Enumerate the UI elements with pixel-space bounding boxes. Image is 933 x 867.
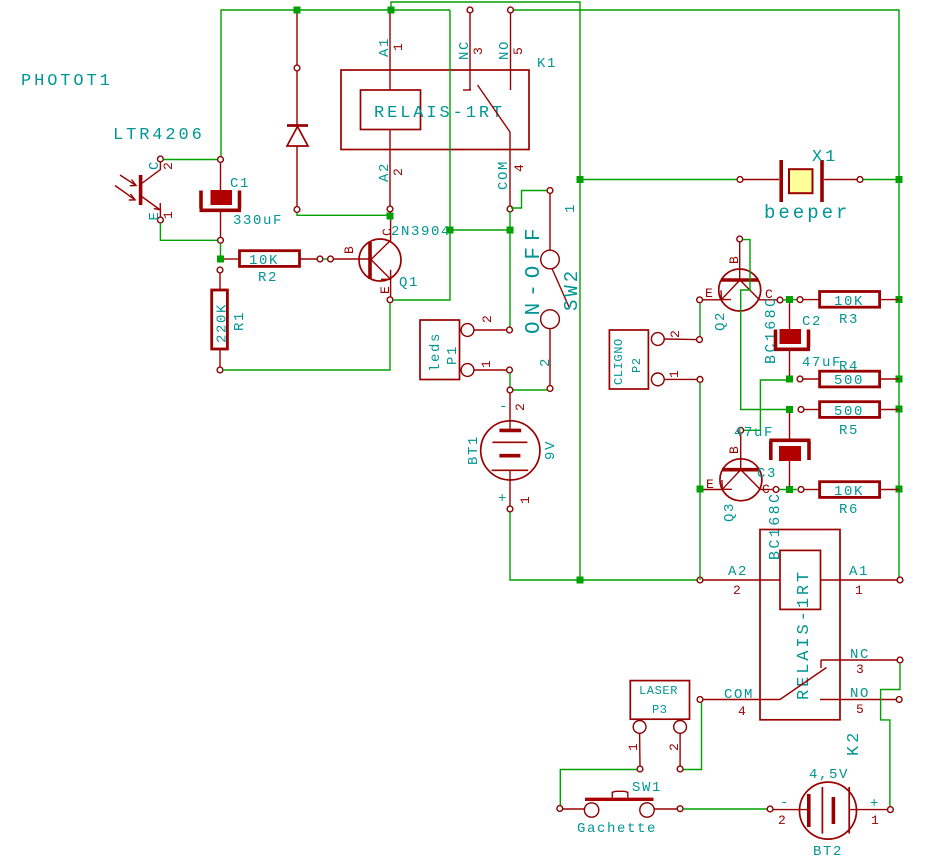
value 220K (215, 303, 231, 343)
label E (Q3) (706, 477, 714, 492)
label plus (BT2) (870, 796, 880, 812)
node SW1 left circle (557, 806, 563, 812)
svg-text:2N3904: 2N3904 (391, 224, 451, 240)
junction C2 top (786, 296, 793, 303)
wire R2 to Q1 base (323, 258, 327, 260)
node C1 bottom circle (218, 237, 224, 243)
svg-text:P2: P2 (630, 357, 644, 373)
svg-text:1: 1 (855, 583, 863, 598)
pin number 2 (P2) (668, 330, 683, 338)
resistor R2 10K (224, 251, 323, 267)
label 2N3904 (391, 224, 451, 240)
svg-text:E: E (378, 286, 393, 294)
pin number 1 (BT1) (518, 496, 533, 504)
pin name C (147, 160, 163, 170)
svg-text:1: 1 (563, 203, 579, 213)
label C (Q3) (762, 482, 770, 497)
label E (378, 286, 393, 294)
svg-text:SW1: SW1 (632, 780, 662, 796)
junction node R1/R2 (217, 256, 224, 263)
svg-text:BT1: BT1 (466, 435, 482, 465)
junction x580 beeper row (577, 176, 584, 183)
svg-text:C1: C1 (230, 176, 250, 192)
svg-text:NC: NC (850, 647, 870, 663)
svg-text:A2: A2 (728, 564, 748, 580)
junction x580 bottom rail (577, 577, 584, 584)
label B (Q2) (727, 256, 742, 264)
svg-text:4: 4 (512, 164, 527, 172)
pin number 1 (161, 211, 176, 219)
node R6 left circle (798, 487, 804, 493)
name CLIGNO (612, 338, 626, 385)
svg-text:E: E (706, 477, 714, 492)
svg-text:47uF: 47uF (734, 425, 774, 441)
svg-text:2: 2 (480, 315, 495, 323)
phototransistor LTR4206 (115, 156, 163, 223)
name R5 (839, 423, 859, 439)
name R6 (839, 502, 859, 518)
junction x510 COM row (507, 227, 514, 234)
junction x899 beeper row (896, 176, 903, 183)
junction x899 R3 row (896, 296, 903, 303)
svg-text:Q1: Q1 (399, 275, 419, 291)
svg-text:10K: 10K (834, 294, 864, 310)
resistor R5 500 (804, 402, 899, 418)
wire P3 pin1 to SW1 left (560, 770, 637, 806)
svg-text:R6: R6 (839, 502, 859, 518)
svg-text:K2: K2 (845, 730, 864, 756)
value 500 (R5) (834, 404, 864, 420)
pin number 2 (SW2) (538, 357, 554, 367)
svg-text:2: 2 (538, 357, 554, 367)
pin number 1 (391, 43, 406, 51)
label Q2 (713, 311, 729, 331)
battery BT2 4,5V (773, 782, 893, 839)
svg-text:BC168C: BC168C (763, 296, 780, 364)
svg-text:NO: NO (850, 686, 870, 702)
name P1 (445, 345, 461, 365)
label 47uF (C2) (802, 355, 842, 371)
svg-text:SW2: SW2 (561, 268, 583, 311)
label RELAIS-1RT (K1) (374, 104, 505, 123)
svg-text:beeper: beeper (764, 202, 850, 224)
wire LTR emitter down-right (160, 223, 217, 240)
label RELAIS-1RT (K2) (795, 569, 814, 700)
svg-text:1: 1 (161, 211, 176, 219)
beeper X1 (737, 160, 863, 202)
svg-text:2: 2 (161, 162, 176, 170)
node R4 left circle (797, 376, 803, 382)
capacitor C3 (inverted) (769, 413, 810, 487)
name R1 (232, 311, 248, 331)
svg-text:R4: R4 (839, 359, 859, 375)
wire beeper left (583, 179, 737, 181)
junction C2 bottom (786, 376, 793, 383)
name leds (428, 332, 444, 372)
resistor R1 220K (212, 273, 228, 373)
pin number 2 (P3) (667, 743, 682, 751)
label C (Q2) (765, 287, 773, 302)
label plus (498, 491, 508, 507)
wire Q3 collector to R6 junction (779, 489, 797, 491)
junction x899 R4 row (896, 376, 903, 383)
relay K1 coil RELAIS-1RT (341, 14, 529, 212)
resistor R3 10K (803, 292, 899, 308)
svg-text:B: B (727, 446, 742, 454)
label B (342, 246, 357, 254)
wire C1 bottom to junction (220, 243, 222, 256)
wire C2 bottom to Q3 base (743, 380, 787, 430)
svg-text:1: 1 (626, 743, 641, 751)
pin name NO (497, 40, 513, 60)
svg-text:B: B (342, 246, 357, 254)
pin number 3 (471, 47, 486, 55)
wire Q2 collector to R3 junction (783, 299, 797, 301)
svg-text:BT2: BT2 (813, 844, 843, 860)
svg-text:E: E (705, 286, 713, 301)
connector P3 LASER (630, 681, 689, 772)
pin number 4 (K2) (738, 704, 746, 719)
pin number 1 (P3) (626, 743, 641, 751)
label Q3 (722, 502, 738, 522)
svg-text:2: 2 (667, 743, 682, 751)
svg-text:PHOTOT1: PHOTOT1 (21, 72, 113, 91)
wire top rail y=10 (221, 10, 450, 159)
value 10K (R3) (834, 294, 864, 310)
capacitor C2 (774, 303, 810, 375)
pin number 2 (161, 162, 176, 170)
pin name COM (K2) (724, 687, 754, 703)
svg-text:2: 2 (513, 403, 528, 411)
resistor R6 10K (804, 482, 899, 498)
svg-text:R3: R3 (839, 312, 859, 328)
transistor Q3 BC168C (704, 427, 779, 500)
svg-text:10K: 10K (249, 253, 279, 269)
svg-text:R2: R2 (258, 270, 278, 286)
node R5 left circle (798, 407, 804, 413)
pin name A2 (377, 162, 393, 182)
name P3 (652, 703, 668, 717)
pin name A1 (K2) (849, 564, 869, 580)
svg-text:4,5V: 4,5V (809, 767, 849, 783)
svg-text:P3: P3 (652, 703, 668, 717)
wire diode bottom to A2 junction (297, 213, 390, 216)
junction top diode (294, 7, 301, 14)
svg-text:P1: P1 (445, 345, 461, 365)
junction Q3 emitter (697, 486, 704, 493)
svg-text:R1: R1 (232, 311, 248, 331)
pin number 2 (391, 168, 406, 176)
relay K2 switch (697, 657, 903, 702)
wire top inner rail y=2 from A1 junction to x580 (391, 2, 580, 580)
label BC168C (Q3) (767, 492, 784, 560)
label minus (BT2) (780, 795, 790, 811)
label B (Q3) (727, 446, 742, 454)
pin name E (147, 210, 163, 220)
svg-text:9V: 9V (543, 440, 559, 460)
svg-text:COM: COM (496, 160, 512, 190)
svg-text:500: 500 (834, 404, 864, 420)
svg-text:1: 1 (391, 43, 406, 51)
title PHOTOT1 (21, 72, 113, 91)
wire Q2 base to R5 junction (741, 240, 787, 410)
svg-text:B: B (727, 256, 742, 264)
value 10K (R2) (249, 253, 279, 269)
junction C3 top / R5 (786, 406, 793, 413)
svg-text:1: 1 (518, 496, 533, 504)
name R4 (839, 359, 859, 375)
pin name COM (496, 160, 512, 190)
wire P1 pin1 to battery minus / SW2 pin2 (510, 373, 547, 390)
svg-text:47uF: 47uF (802, 355, 842, 371)
junction C3 bottom (786, 486, 793, 493)
wire K2 NC to BT2 plus (881, 663, 900, 806)
wire BT1 plus to bottom rail (510, 512, 697, 580)
label minus (499, 399, 509, 415)
relay K1 switch (463, 7, 513, 212)
pin number 1 (BT2) (871, 813, 879, 828)
svg-text:-: - (780, 795, 790, 811)
connector P1 leds (420, 320, 512, 380)
junction x899 R6 row (896, 486, 903, 493)
transistor Q2 BC168C (697, 236, 783, 311)
node R1 top circle (217, 267, 223, 273)
svg-text:1: 1 (479, 360, 494, 368)
pin name NC (457, 40, 473, 60)
pin number 2 (BT1) (513, 403, 528, 411)
pin number 4 (512, 164, 527, 172)
svg-text:LTR4206: LTR4206 (113, 126, 205, 145)
svg-text:1: 1 (667, 370, 682, 378)
label C2 (802, 314, 822, 330)
svg-text:Q2: Q2 (713, 311, 729, 331)
wire COM row to x510 (450, 229, 510, 231)
value 4,5V (809, 767, 849, 783)
pin number 2 (K2) (733, 583, 741, 598)
label C3 (757, 466, 777, 482)
pin number 5 (511, 47, 526, 55)
svg-text:LASER: LASER (639, 684, 678, 698)
svg-text:2: 2 (778, 813, 786, 828)
wire Q2 emitter to P2 pin2 (699, 303, 701, 336)
svg-text:220K: 220K (215, 303, 231, 343)
wire SW1 to BT2 minus (683, 808, 767, 810)
pin number 1 (P2) (667, 370, 682, 378)
wire Q1 emitter down and left to R1 bottom (223, 303, 390, 370)
name SW1 (632, 780, 662, 796)
wire LTR collector to C1 top (164, 159, 218, 161)
svg-text:RELAIS-1RT: RELAIS-1RT (374, 104, 505, 123)
node C1 top pin circle (218, 157, 224, 163)
svg-text:+: + (498, 491, 508, 507)
diode D1 (287, 14, 308, 213)
pin number 2 (BT2) (778, 813, 786, 828)
name ON-OFF (523, 222, 546, 334)
pin name A2 (K2) (728, 564, 748, 580)
wire COM pin jog to SW2 pin1 (511, 191, 547, 209)
pin number 1 (K2) (855, 583, 863, 598)
relay K2 coil RELAIS-1RT (703, 530, 903, 720)
label X1 (812, 148, 838, 167)
label C (380, 228, 395, 236)
name LASER (639, 684, 678, 698)
node BT1 minus circle (507, 387, 513, 393)
svg-text:A1: A1 (849, 564, 869, 580)
svg-text:K1: K1 (537, 56, 557, 72)
wire top right rail to x899 (510, 10, 899, 580)
name R3 (839, 312, 859, 328)
pin number 5 (K2) (856, 702, 864, 717)
transistor Q1 2N3904 (334, 220, 401, 303)
wire P2 pin1 ground rail down (699, 383, 701, 581)
label 330uF (233, 213, 283, 229)
junction x450 COM row (447, 227, 454, 234)
svg-text:10K: 10K (834, 484, 864, 500)
svg-text:leds: leds (428, 332, 444, 372)
battery BT1 9V (481, 393, 540, 512)
wire beeper right (863, 179, 899, 181)
svg-text:RELAIS-1RT: RELAIS-1RT (795, 569, 814, 700)
svg-text:COM: COM (724, 687, 754, 703)
label BC168C (Q2) (763, 296, 780, 364)
connector P2 CLIGNO (609, 330, 702, 389)
svg-text:2: 2 (668, 330, 683, 338)
svg-text:CLIGNO: CLIGNO (612, 338, 626, 385)
node Q1 base circle (328, 256, 334, 262)
resistor R4 500 (803, 371, 899, 387)
svg-text:500: 500 (834, 373, 864, 389)
label C1 (230, 176, 250, 192)
name R2 (258, 270, 278, 286)
svg-text:3: 3 (471, 47, 486, 55)
node K2 A2 circle (697, 577, 703, 583)
junction A2 / Q1 collector (387, 213, 394, 220)
svg-text:Gachette: Gachette (577, 821, 657, 837)
node BT2 minus circle (767, 806, 773, 812)
pin number 2 (P1) (480, 315, 495, 323)
label Gachette (577, 821, 657, 837)
svg-text:1: 1 (871, 813, 879, 828)
name BT2 (813, 844, 843, 860)
wire x510 COM down to P1 pin2 (509, 211, 511, 329)
label E (Q2) (705, 286, 713, 301)
label Q1 (399, 275, 419, 291)
label SW2 (561, 268, 583, 311)
svg-text:+: + (870, 796, 880, 812)
name K2 (845, 730, 864, 756)
value 10K (R6) (834, 484, 864, 500)
label 47uF (C3) (734, 425, 774, 441)
svg-text:C3: C3 (757, 466, 777, 482)
junction x899 R5 row (896, 406, 903, 413)
svg-text:ON-OFF: ON-OFF (523, 222, 546, 334)
pin name A1 (377, 37, 393, 57)
value 9V (543, 440, 559, 460)
pin number 1 (SW2) (563, 203, 579, 213)
switch SW2 ON-OFF (541, 188, 569, 392)
value 500 (R4) (834, 373, 864, 389)
svg-text:X1: X1 (812, 148, 838, 167)
svg-text:R5: R5 (839, 423, 859, 439)
svg-text:330uF: 330uF (233, 213, 283, 229)
junction top A1 (388, 7, 395, 14)
label LTR4206 (113, 126, 205, 145)
switch SW1 Gachette (563, 791, 683, 817)
wire K2 COM to P3 pin2 (683, 703, 701, 770)
name BT1 (466, 435, 482, 465)
svg-text:5: 5 (511, 47, 526, 55)
node R3 left circle (797, 297, 803, 303)
pin name NC (K2) (850, 647, 870, 663)
svg-text:C2: C2 (802, 314, 822, 330)
wire x450 from top rail down to Q1 emitter (393, 10, 450, 300)
svg-text:-: - (499, 399, 509, 415)
label beeper (764, 202, 850, 224)
svg-text:2: 2 (391, 168, 406, 176)
svg-text:4: 4 (738, 704, 746, 719)
pin name NO (K2) (850, 686, 870, 702)
pin number 1 (P1) (479, 360, 494, 368)
svg-text:2: 2 (733, 583, 741, 598)
svg-text:Q3: Q3 (722, 502, 738, 522)
name K1 (537, 56, 557, 72)
svg-text:3: 3 (856, 662, 864, 677)
pin number 3 (K2) (856, 662, 864, 677)
svg-text:5: 5 (856, 702, 864, 717)
capacitor C1 (200, 163, 242, 238)
name P2 (630, 357, 644, 373)
